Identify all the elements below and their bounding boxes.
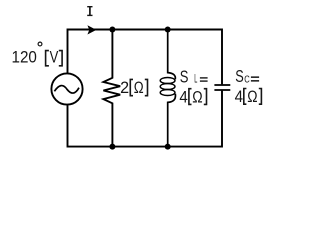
inductor loop 1 — [160, 78, 175, 84]
svg-text:S: S — [235, 66, 244, 86]
bracket ] of 2[ohm] — [145, 79, 148, 95]
bracket [ of 4[ohm] C — [244, 89, 247, 105]
svg-text:4: 4 — [235, 87, 243, 106]
svg-text:Ω: Ω — [247, 87, 257, 106]
bracket ] of 4[ohm] L — [204, 89, 207, 105]
bracket ] of [V] — [59, 51, 62, 66]
bracket [ of 4[ohm] L — [189, 89, 192, 105]
equals sign of SL= — [200, 77, 208, 82]
inductor SL wire top — [168, 30, 176, 80]
current arrow — [88, 26, 96, 34]
sine wave — [54, 86, 79, 94]
svg-text:V: V — [50, 47, 59, 66]
svg-text:Ω: Ω — [192, 87, 202, 106]
bracket [ of 2[ohm] — [130, 79, 133, 95]
wire bottom rail — [68, 91, 223, 147]
label I (serif) — [87, 6, 92, 16]
capacitor SC bottom plate — [214, 89, 230, 91]
junction dot bottom resistor — [109, 144, 115, 150]
junction dot top inductor — [165, 27, 171, 33]
equals sign of SC= — [251, 76, 259, 81]
bracket [ of [V] — [46, 51, 49, 66]
svg-text:120: 120 — [12, 47, 37, 66]
svg-text:L: L — [194, 74, 197, 86]
svg-text:2: 2 — [120, 78, 129, 97]
svg-text:C: C — [244, 74, 250, 86]
bracket ] of 4[ohm] C — [259, 89, 262, 105]
inductor wire bottom — [168, 94, 176, 147]
svg-text:S: S — [180, 66, 189, 86]
inductor loop 2 — [160, 84, 175, 90]
capacitor SC top plate — [214, 84, 230, 86]
wire top rail — [68, 30, 223, 85]
resistor R 2 ohm — [103, 30, 120, 147]
svg-text:4: 4 — [179, 87, 187, 106]
ac source V1 — [51, 73, 82, 104]
svg-text:Ω: Ω — [134, 78, 144, 97]
junction dot bottom inductor — [165, 144, 171, 150]
junction dot top resistor — [109, 27, 115, 33]
inductor loop 3 — [160, 90, 175, 96]
degree symbol — [38, 42, 42, 46]
